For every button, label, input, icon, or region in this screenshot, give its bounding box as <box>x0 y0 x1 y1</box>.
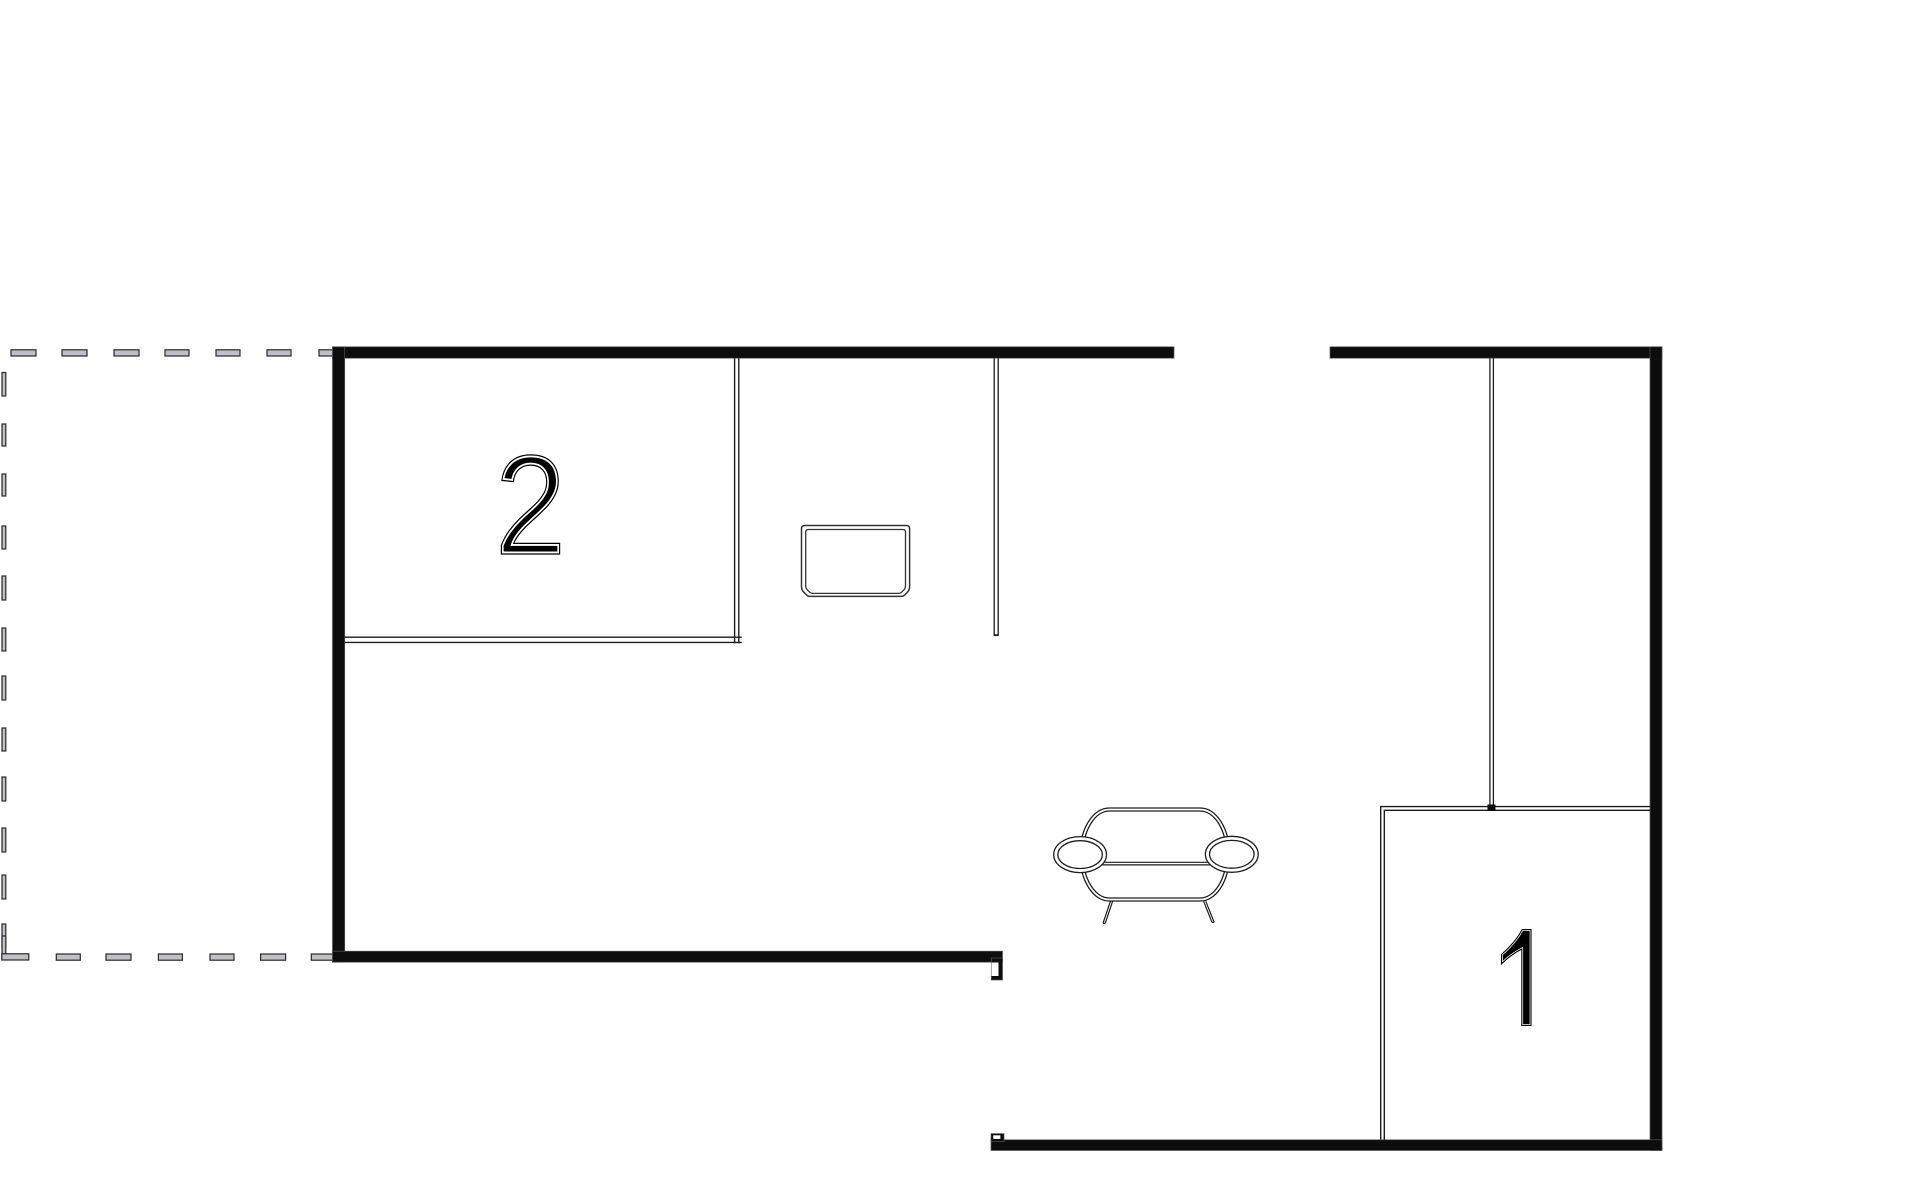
dashed boundary left vertical line <box>2 373 6 948</box>
wall bottom-right horizontal <box>991 1140 1662 1151</box>
wall bottom-right end lip <box>991 1134 1004 1142</box>
sofa left armrest ellipse <box>1054 837 1107 873</box>
room label 2 <box>495 426 566 585</box>
wall top-left segment <box>333 347 1175 358</box>
room label 1 <box>1502 930 1532 1026</box>
room 1 partition box inner line <box>1384 810 1650 1140</box>
junction blob partition meets room 1 box <box>1488 805 1496 812</box>
wall bottom-left end foot <box>991 958 1002 980</box>
wall bottom-left horizontal <box>333 951 1003 962</box>
wall bottom-left foot inner notch <box>992 963 999 977</box>
wall right vertical <box>1650 347 1662 1151</box>
dashed boundary bottom-left corner piece <box>2 936 29 960</box>
sofa body inner line <box>1083 811 1227 898</box>
furniture small cabinet outer line <box>802 526 910 597</box>
partition thin double line at x~1491 <box>1490 358 1494 806</box>
partition thin double line at x~995 <box>994 358 999 635</box>
sofa seat double line <box>1100 862 1210 865</box>
furniture small cabinet inner line <box>806 530 906 594</box>
wall top-right segment <box>1330 347 1662 358</box>
wall bottom-right lip inner notch <box>993 1135 1000 1139</box>
sofa right leg <box>1204 901 1215 922</box>
room 2 partition box right double line <box>735 358 739 643</box>
sofa body outer line <box>1080 808 1230 901</box>
dashed boundary bottom horizontal line <box>56 954 335 960</box>
room 2 partition box bottom double line <box>345 637 742 642</box>
wall left vertical <box>333 347 345 962</box>
sofa right armrest ellipse <box>1205 836 1258 872</box>
svg-text:2: 2 <box>495 426 566 585</box>
sofa left leg <box>1103 901 1113 923</box>
room 1 partition box outer line <box>1381 807 1651 1140</box>
dashed boundary top horizontal line <box>11 350 333 356</box>
